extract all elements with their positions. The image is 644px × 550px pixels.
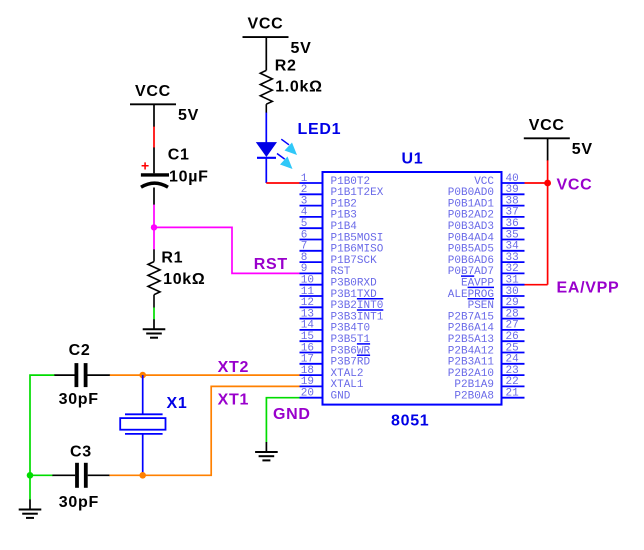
pin 16 P3B6WR (300, 342, 371, 357)
wire VCC lead down (right) (547, 138, 549, 161)
wire red VCC net to pin 31 (525, 284, 548, 286)
pin 14 P3B4T0 (300, 320, 371, 335)
wire red net LED to pin 1 (266, 182, 299, 184)
svg-text:30pF: 30pF (59, 391, 99, 408)
wire red VCC net vertical (547, 160, 549, 284)
svg-text:13: 13 (301, 308, 314, 320)
svg-text:20: 20 (301, 388, 314, 400)
svg-text:P1B1T2EX: P1B1T2EX (331, 187, 384, 199)
svg-text:11: 11 (301, 286, 315, 298)
svg-text:9: 9 (301, 263, 308, 275)
svg-text:P0B4AD4: P0B4AD4 (448, 232, 495, 244)
svg-text:2: 2 (301, 184, 308, 196)
pin 15 P3B5T1 (300, 331, 371, 346)
svg-text:X1: X1 (167, 395, 188, 412)
svg-text:4: 4 (301, 207, 308, 219)
svg-text:P0B2AD2: P0B2AD2 (448, 210, 494, 222)
svg-text:P2B5A13: P2B5A13 (448, 334, 494, 346)
svg-text:21: 21 (506, 388, 520, 400)
svg-text:18: 18 (301, 365, 314, 377)
svg-text:XT2: XT2 (218, 359, 249, 376)
svg-text:7: 7 (301, 241, 308, 253)
svg-text:C1: C1 (168, 147, 190, 164)
wire orange XT2 net: C2 to pin 18 (110, 374, 300, 376)
svg-text:P2B0A8: P2B0A8 (454, 391, 494, 403)
crystal X1 (120, 395, 187, 434)
svg-text:GND: GND (331, 391, 351, 403)
wire magenta RST net: junction to R1 (153, 227, 155, 249)
pin 39 P0B0AD0 (448, 184, 525, 199)
svg-text:RST: RST (254, 256, 288, 273)
wire green GND net below R1 (153, 307, 155, 319)
svg-text:39: 39 (506, 184, 519, 196)
svg-text:6: 6 (301, 229, 308, 241)
svg-text:XT1: XT1 (218, 391, 249, 408)
pin 32 P0B7AD7 (448, 263, 525, 278)
pin 18 XTAL2 (300, 365, 364, 380)
svg-text:P3B4T0: P3B4T0 (331, 323, 371, 335)
pin 26 P2B5A13 (448, 331, 525, 346)
wire green net: C2 left down to C3 (30, 375, 54, 475)
pin 36 P0B3AD3 (448, 218, 525, 233)
pin 33 P0B6AD6 (448, 252, 525, 267)
svg-text:GND: GND (273, 406, 311, 423)
svg-text:1: 1 (301, 173, 308, 185)
svg-text:27: 27 (506, 320, 519, 332)
svg-text:34: 34 (506, 241, 520, 253)
junction node XT1 (orange dot) (139, 472, 146, 479)
pin 28 P2B7A15 (448, 308, 525, 323)
ground symbol (below R1) (143, 319, 166, 337)
wire VCC lead down from bar (153, 104, 155, 127)
wire blue crystal top lead (142, 375, 144, 414)
svg-text:29: 29 (506, 297, 519, 309)
wire magenta RST net: C1 to junction (153, 205, 155, 228)
pin 24 P2B3A11 (448, 354, 525, 369)
wire red VCC net to pin 40 (525, 182, 548, 184)
svg-text:30: 30 (506, 286, 519, 298)
pin 4 P1B3 (300, 207, 357, 222)
junction node (green dot) (27, 472, 34, 479)
wire blue LED cathode down (265, 158, 267, 183)
pin 1 P1B0T2 (300, 173, 371, 188)
svg-text:28: 28 (506, 308, 519, 320)
svg-text:LED1: LED1 (298, 121, 342, 138)
pin 37 P0B2AD2 (448, 207, 525, 222)
svg-text:5: 5 (301, 218, 308, 230)
pin 12 P3B2INT0 (300, 297, 384, 312)
pin 6 P1B5MOSI (300, 229, 384, 244)
svg-text:P2B7A15: P2B7A15 (448, 311, 494, 323)
pin 34 P0B5AD5 (448, 241, 525, 256)
svg-text:8051: 8051 (391, 413, 429, 430)
junction node XT2 (orange dot) (139, 372, 146, 379)
svg-text:C3: C3 (70, 444, 92, 461)
pin 2 P1B1T2EX (300, 184, 384, 199)
svg-text:XTAL1: XTAL1 (331, 379, 364, 391)
svg-text:37: 37 (506, 207, 519, 219)
svg-text:35: 35 (506, 229, 519, 241)
svg-text:19: 19 (301, 376, 314, 388)
svg-text:16: 16 (301, 342, 314, 354)
svg-text:P2B6A14: P2B6A14 (448, 323, 495, 335)
svg-text:R1: R1 (161, 250, 183, 267)
svg-text:VCC: VCC (557, 176, 593, 193)
svg-text:5V: 5V (178, 107, 199, 124)
svg-text:EA/VPP: EA/VPP (557, 280, 620, 297)
power symbol VCC (middle, above R2) (243, 16, 312, 57)
ground symbol (below pin 20) (255, 442, 278, 460)
LED1 emission arrow 1 (cyan) (281, 139, 297, 155)
wire blue crystal bottom lead (142, 434, 144, 475)
svg-text:8: 8 (301, 252, 308, 264)
svg-text:P2B3A11: P2B3A11 (448, 357, 495, 369)
LED1 emission arrow 2 (cyan) (277, 154, 293, 170)
svg-text:31: 31 (506, 275, 520, 287)
svg-text:P1B2: P1B2 (331, 198, 357, 210)
power symbol VCC (left, above C1) (130, 83, 199, 124)
svg-text:26: 26 (506, 331, 519, 343)
svg-text:P1B3: P1B3 (331, 210, 357, 222)
svg-text:VCC: VCC (248, 16, 284, 33)
svg-text:P1B7SCK: P1B7SCK (331, 255, 378, 267)
svg-text:U1: U1 (402, 151, 424, 168)
pin 8 P1B7SCK (300, 252, 378, 267)
wire green GND net: pin 20 left and down (266, 398, 299, 443)
junction node VCC (red dot) (544, 180, 551, 187)
svg-text:P1B5MOSI: P1B5MOSI (331, 232, 384, 244)
svg-text:36: 36 (506, 218, 519, 230)
junction node RST (151, 224, 157, 230)
pin 3 P1B2 (300, 195, 357, 210)
svg-text:15: 15 (301, 331, 314, 343)
pin 17 P3B7RD (300, 354, 371, 369)
pin 27 P2B6A14 (448, 320, 525, 335)
pin 19 XTAL1 (300, 376, 364, 391)
pin 7 P1B6MISO (300, 241, 384, 256)
svg-text:P1B4: P1B4 (331, 221, 358, 233)
svg-text:+: + (141, 157, 150, 173)
pin 9 RST (300, 263, 351, 278)
svg-text:38: 38 (506, 195, 519, 207)
pin 13 P3B3INT1 (300, 308, 384, 323)
svg-text:12: 12 (301, 297, 314, 309)
wire green net: to C3 left (30, 474, 52, 476)
wire magenta RST net: junction right, down, to pin 9 (154, 227, 300, 273)
svg-text:P1B0T2: P1B0T2 (331, 176, 371, 188)
svg-text:17: 17 (301, 354, 314, 366)
wire red net VCC to C1 (153, 127, 155, 149)
svg-text:1.0kΩ: 1.0kΩ (275, 79, 322, 96)
pin 22 P2B1A9 (454, 376, 524, 391)
IC U1 8051 body (323, 172, 502, 405)
svg-text:P3B3INT1: P3B3INT1 (331, 311, 384, 323)
svg-text:VCC: VCC (135, 83, 171, 100)
svg-text:30pF: 30pF (59, 494, 99, 511)
svg-text:XTAL2: XTAL2 (331, 368, 364, 380)
wire orange XT1 net: C3 right, up, to pin 19 (109, 386, 299, 475)
svg-text:5V: 5V (291, 40, 312, 57)
svg-text:PSEN: PSEN (468, 300, 494, 312)
svg-text:40: 40 (506, 173, 519, 185)
svg-text:33: 33 (506, 252, 519, 264)
svg-text:P2B4A12: P2B4A12 (448, 345, 494, 357)
pin 11 P3B1TXD (300, 286, 378, 301)
svg-text:VCC: VCC (474, 176, 494, 188)
svg-text:14: 14 (301, 320, 315, 332)
pin 25 P2B4A12 (448, 342, 525, 357)
pin 35 P0B4AD4 (448, 229, 525, 244)
svg-text:10: 10 (301, 275, 314, 287)
pin 38 P0B1AD1 (448, 195, 525, 210)
pin 21 P2B0A8 (454, 388, 524, 403)
pin 40 VCC (474, 173, 524, 188)
resistor R2 1.0kOhm (260, 58, 322, 114)
svg-text:P0B6AD6: P0B6AD6 (448, 255, 494, 267)
svg-text:R2: R2 (275, 58, 297, 75)
pin 30 ALEPROG (448, 286, 525, 301)
svg-text:32: 32 (506, 263, 519, 275)
pin 31 EAVPP (461, 275, 525, 290)
svg-text:P1B6MISO: P1B6MISO (331, 244, 384, 256)
svg-text:24: 24 (506, 354, 520, 366)
capacitor C1 10uF (polarized) (141, 147, 209, 205)
svg-text:P0B3AD3: P0B3AD3 (448, 221, 494, 233)
svg-text:5V: 5V (572, 141, 593, 158)
pin 5 P1B4 (300, 218, 358, 233)
pin 23 P2B2A10 (448, 365, 525, 380)
svg-text:10kΩ: 10kΩ (163, 271, 205, 288)
svg-text:P3B7RD: P3B7RD (331, 357, 371, 369)
svg-text:P0B5AD5: P0B5AD5 (448, 244, 494, 256)
svg-text:C2: C2 (69, 342, 91, 359)
wire VCC lead to R2 (265, 37, 267, 70)
svg-text:25: 25 (506, 342, 519, 354)
svg-text:3: 3 (301, 195, 308, 207)
power symbol VCC (right, above U1 pin40) (524, 117, 593, 158)
wire blue net R2 to LED1 (265, 113, 267, 143)
svg-text:P3B0RXD: P3B0RXD (331, 278, 378, 290)
svg-text:23: 23 (506, 365, 519, 377)
svg-text:P2B2A10: P2B2A10 (448, 368, 494, 380)
wire green net: down to ground (29, 475, 31, 500)
svg-text:P0B0AD0: P0B0AD0 (448, 187, 494, 199)
pin 29 PSEN (468, 297, 525, 312)
pin 10 P3B0RXD (300, 275, 378, 290)
svg-text:10µF: 10µF (169, 168, 209, 185)
svg-text:22: 22 (506, 376, 519, 388)
svg-text:P0B1AD1: P0B1AD1 (448, 198, 495, 210)
ground symbol (bottom left) (19, 500, 42, 518)
capacitor C2 30pF (54, 342, 110, 408)
resistor R1 10kOhm (148, 249, 205, 307)
capacitor C3 30pF (52, 444, 110, 511)
svg-text:VCC: VCC (529, 117, 565, 134)
pin 20 GND (300, 388, 351, 403)
svg-text:RST: RST (331, 266, 351, 278)
svg-text:P2B1A9: P2B1A9 (454, 379, 494, 391)
LED LED1 (diode body) (256, 142, 277, 158)
